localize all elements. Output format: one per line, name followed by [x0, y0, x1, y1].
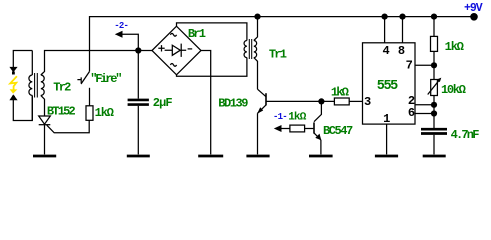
svg-text:Br1: Br1 [188, 27, 206, 41]
thyristor BT152 [39, 116, 89, 154]
spark (yellow lightning) [10, 76, 17, 90]
wire trimmer to cap [433, 96, 435, 129]
Tr2 secondary winding (left) [29, 51, 32, 121]
svg-text:555: 555 [377, 79, 398, 94]
capacitor C 4.7nF [421, 129, 447, 154]
wire BD139 base to 555 pin3 [266, 100, 334, 102]
bridge - mark [188, 48, 193, 50]
ground (555 pin1) [375, 155, 398, 158]
spark gap bottom electrode [9, 94, 17, 100]
ground (4.7nF) [423, 155, 446, 158]
pin 1 [386, 124, 388, 154]
pin 8 [402, 17, 404, 43]
Tr1 core [249, 39, 251, 59]
wire bridge top to Tr1 [177, 23, 247, 41]
svg-text:BC547: BC547 [323, 124, 353, 138]
wire switch to resistor [89, 88, 91, 106]
ground (BC547) [309, 155, 333, 158]
junction base node [318, 98, 324, 104]
bridge + mark [158, 45, 164, 51]
svg-text:4.7nF: 4.7nF [451, 128, 480, 142]
spark gap top electrode [9, 67, 17, 73]
bridge ~ top [170, 33, 176, 36]
variable resistor VR 10k [428, 78, 442, 96]
ground (2uF) [127, 155, 150, 158]
svg-text:1kΩ: 1kΩ [445, 40, 464, 54]
Tr2 primary winding (right) [41, 71, 45, 116]
resistor R 1k (pin3) [334, 98, 349, 105]
resistor R 1k (top right) [431, 36, 438, 51]
wire spark loop bottom [13, 96, 32, 121]
ground (BD139) [246, 155, 269, 158]
svg-text:BD139: BD139 [218, 97, 248, 111]
ground (bridge) [198, 155, 223, 158]
transformer Tr1 [244, 17, 257, 90]
node +9V terminal [470, 13, 478, 21]
svg-text:"Fire": "Fire" [90, 72, 121, 86]
wire right branch top [433, 17, 435, 37]
pin 2 [415, 104, 434, 106]
Tr1 secondary winding (right) [254, 17, 258, 90]
pin 7 [415, 64, 434, 66]
bridge ~ bottom [170, 64, 176, 67]
wire node2 horizontal (spark loop / cap / bridge+) [13, 51, 32, 68]
svg-text:Tr2: Tr2 [53, 81, 71, 95]
pin 6 [415, 113, 434, 115]
junction Tr1/rail [254, 14, 260, 20]
Tr2 core [35, 73, 38, 98]
svg-text:10kΩ: 10kΩ [441, 83, 466, 97]
net flag -1- with resistor to BC547 base [274, 125, 314, 132]
transistor Q BD139 [257, 89, 266, 154]
wire bridge bottom to Tr1 [177, 58, 247, 77]
wire bridge minus to ground [201, 51, 211, 155]
Tr1 primary winding (left) [244, 41, 247, 58]
transformer Tr2 [29, 51, 45, 121]
IC U1 555 [363, 43, 416, 124]
net flag -2- [115, 31, 139, 51]
svg-text:-2-: -2- [114, 21, 128, 31]
svg-text:+9V: +9V [464, 2, 483, 15]
svg-text:BT152: BT152 [47, 104, 76, 118]
svg-text:1kΩ: 1kΩ [331, 85, 349, 99]
ground (thyristor) [33, 155, 56, 158]
capacitor C 2uF [128, 51, 149, 155]
svg-text:1kΩ: 1kΩ [288, 111, 306, 123]
svg-text:Tr1: Tr1 [269, 47, 287, 61]
switch "Fire" [77, 72, 89, 85]
resistor R 1k (fire branch) [86, 106, 93, 121]
svg-text:1kΩ: 1kΩ [95, 106, 114, 120]
wire Tr2 primary top to bridge [45, 51, 153, 72]
transistor Q BC547 [314, 101, 321, 154]
pin 4 [384, 17, 386, 43]
wire +9V rail [90, 17, 475, 72]
bridge rectifier Br1 [152, 26, 201, 75]
svg-text:2µF: 2µF [153, 96, 173, 110]
svg-text:-1-: -1- [273, 112, 287, 122]
junction node2 [135, 47, 141, 53]
wire to pin7 node [433, 51, 435, 79]
